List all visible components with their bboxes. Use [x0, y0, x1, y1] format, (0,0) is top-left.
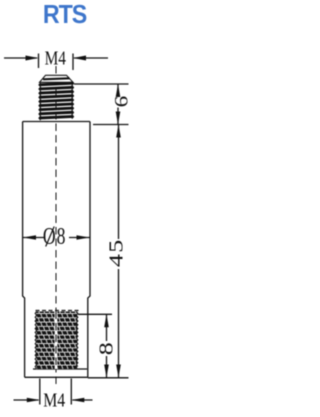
arrow Ø8 left (points left) [23, 235, 36, 240]
dimension texts [43, 46, 132, 410]
svg-text:6: 6 [111, 96, 132, 108]
top thread M4 stud [39, 75, 74, 120]
arrow 45 down [116, 365, 121, 378]
text M4 top [45, 46, 66, 68]
8 top extension line [78, 313, 112, 315]
Ø8 dimension line [23, 237, 44, 239]
thread crest zigzag left [39, 83, 41, 120]
arrow 6 up [116, 84, 121, 97]
knurl bottom line [33, 368, 87, 370]
knurl band [36, 312, 77, 370]
text Ø8 [43, 222, 67, 250]
chamfered tip [40, 75, 74, 82]
extension line (top of thread, for dim 6) [74, 83, 129, 85]
body outline [23, 122, 90, 378]
text M4 bottom [43, 389, 65, 411]
arrow 6 down [116, 112, 121, 125]
tip first short band [43, 78, 70, 79]
Ø slash extension [46, 227, 55, 247]
arrow M4 top right (points left) [73, 56, 86, 61]
centerline [55, 66, 57, 385]
arrow 8 down [104, 365, 109, 378]
arrowheads [23, 56, 121, 403]
thread crest zigzag right [72, 81, 74, 118]
text 6 [111, 96, 132, 108]
svg-text:M4: M4 [45, 46, 66, 68]
extension line bottom right (for 8/45) [88, 377, 129, 379]
arrow 45 up [116, 125, 121, 138]
title RTS [3, 1, 126, 30]
svg-text:45: 45 [105, 238, 127, 267]
extension line right (top M4) [72, 54, 74, 71]
dimension line 6 [117, 84, 119, 96]
centerline channel through knurl [55, 312, 58, 370]
dimension M4 top: right line [74, 57, 108, 59]
extension line (top of body, for dim 6/45) [93, 124, 129, 126]
svg-text:8: 8 [95, 342, 117, 355]
arrow M4 bottom right (points left) [71, 398, 84, 403]
text 45 [105, 238, 127, 267]
dimension M4 top: left line [4, 57, 37, 59]
dimension line 8 [106, 314, 108, 341]
extension line left (top M4) [38, 54, 40, 69]
knurl dashed top line [36, 310, 81, 312]
arrow Ø8 right (points right) [77, 235, 90, 240]
arrow 8 up [104, 314, 109, 327]
thread bands [40, 83, 74, 118]
text 8 [95, 342, 117, 355]
arrow M4 bottom left (points right) [27, 398, 40, 403]
knurl edge zigzag left [35, 312, 37, 369]
svg-text:M4: M4 [43, 389, 65, 411]
bottom M4 dimension lines [14, 399, 39, 401]
bottom M4 extension lines [39, 379, 41, 405]
knurl edge zigzag right [76, 312, 78, 367]
arrow M4 top left (points right) [26, 56, 39, 61]
dimension line 45 [118, 125, 120, 240]
